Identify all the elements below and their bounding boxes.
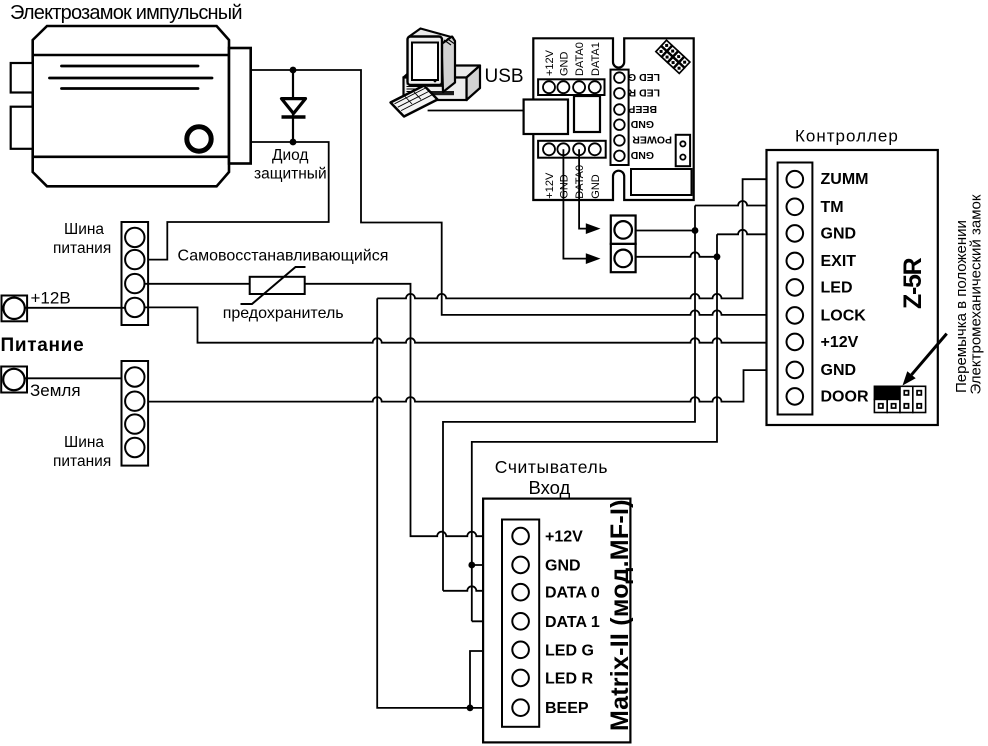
node diode top (290, 67, 297, 74)
terminal strip power bus bottom (122, 361, 149, 466)
wire TM net (TM contact 1, controller TM, reader DATA 0) (443, 201, 786, 591)
jumper arrow (912, 334, 947, 375)
adapter top terminals (543, 81, 601, 93)
svg-text:EXIT: EXIT (821, 253, 857, 270)
svg-text:Шина: Шина (64, 434, 104, 451)
svg-text:Вход: Вход (529, 477, 571, 498)
adapter jumper 2-hole (676, 135, 690, 166)
svg-text:DATA0: DATA0 (574, 165, 586, 199)
power bus top terminals (125, 228, 144, 317)
reader terminals +12V..BEEP (512, 528, 529, 716)
svg-text:LED R: LED R (545, 670, 593, 687)
svg-text:GND: GND (821, 362, 857, 379)
arrowhead to TM contact 2 (586, 253, 601, 264)
svg-text:GND: GND (558, 52, 570, 77)
svg-text:Электромеханический замок: Электромеханический замок (968, 194, 985, 394)
svg-text:POWER: POWER (632, 134, 672, 146)
svg-text:предохранитель: предохранитель (223, 305, 344, 322)
svg-text:DATA0: DATA0 (574, 42, 586, 76)
node reader GND (468, 562, 475, 569)
svg-text:защитный: защитный (254, 166, 327, 183)
wire fuse to reader +12V (305, 284, 513, 536)
diode D1 protective (282, 72, 306, 140)
svg-text:Считыватель: Считыватель (495, 457, 608, 477)
screen (412, 43, 438, 81)
adapter top terminal row (538, 79, 604, 95)
reader pin labels (545, 529, 600, 718)
svg-text:ZUMM: ZUMM (821, 171, 869, 188)
svg-text:+12V: +12V (544, 49, 556, 76)
wire adapter DATA0 to TM contact 1 (579, 149, 586, 228)
monitor vents (444, 39, 454, 46)
adapter pin header rotated (656, 40, 690, 73)
computer (391, 29, 481, 117)
adapter USB connector (524, 100, 568, 135)
svg-text:+12V: +12V (545, 529, 583, 546)
adapter right labels upside down (628, 71, 672, 161)
ground input terminal (1, 367, 27, 393)
adapter bottom-right rect (631, 169, 692, 195)
case drive slots (427, 84, 448, 87)
svg-text:GND: GND (630, 118, 654, 130)
reader box Matrix-II (483, 499, 630, 743)
monitor top (409, 29, 454, 47)
reader terminal strip (502, 520, 539, 727)
controller terminal strip (778, 163, 813, 415)
case grill (407, 82, 421, 92)
lock latch block (229, 48, 251, 164)
adapter bottom labels (544, 165, 602, 199)
svg-text:GND: GND (821, 225, 857, 242)
svg-text:+12V: +12V (821, 334, 859, 351)
controller jumper block (874, 386, 925, 412)
arrowhead to TM contact 1 (586, 223, 601, 234)
adapter top labels (544, 42, 602, 76)
node diode bottom (290, 139, 297, 146)
wire TM-GND net (TM contact 2, controller GND, reader GND, DATA 1) (472, 230, 787, 621)
svg-text:LED R: LED R (628, 87, 660, 99)
svg-text:DATA 1: DATA 1 (545, 614, 600, 631)
svg-text:Matrix-II (мод.MF-I): Matrix-II (мод.MF-I) (606, 499, 634, 731)
node TM2 (714, 253, 721, 260)
svg-text:GND: GND (545, 557, 581, 574)
svg-text:Диод: Диод (272, 147, 308, 164)
svg-text:TM: TM (821, 199, 844, 216)
TM contact 2 (611, 244, 636, 272)
svg-text:+12V: +12V (544, 172, 556, 199)
svg-text:+12В: +12В (31, 289, 71, 308)
adapter component (574, 96, 600, 132)
case top (404, 66, 481, 78)
keyboard (391, 86, 438, 117)
wire adapter GND to TM contact 2 (563, 149, 586, 258)
lock left tab 1 (11, 63, 33, 93)
svg-text:LED G: LED G (545, 642, 594, 659)
svg-text:Земля: Земля (30, 381, 81, 400)
wire +12V to strip (25, 307, 125, 309)
node TM1 (692, 227, 699, 234)
USB adapter board Z-2 (533, 38, 693, 200)
lock ring (187, 127, 211, 151)
svg-text:BEEP: BEEP (628, 103, 657, 115)
svg-text:GND: GND (630, 149, 654, 161)
wire ground to strip (25, 377, 126, 379)
controller pin labels (821, 171, 869, 405)
monitor right (442, 37, 456, 93)
TM contact 1 (611, 216, 636, 244)
svg-text:питания: питания (53, 453, 111, 470)
wire strip to fuse (144, 283, 249, 285)
adapter bottom terminal row (538, 141, 606, 158)
svg-text:BEEP: BEEP (545, 700, 589, 717)
wire ground bus to controller GND (144, 370, 786, 402)
wire lock- to power bus (144, 142, 328, 260)
svg-text:DOOR: DOOR (821, 388, 869, 405)
+12V input terminal (2, 296, 28, 322)
svg-text:LOCK: LOCK (821, 307, 867, 324)
svg-text:питания: питания (53, 240, 111, 257)
adapter bottom terminals (543, 143, 601, 155)
adapter right terminals (614, 72, 625, 161)
svg-text:USB: USB (485, 66, 524, 87)
svg-text:DATA 0: DATA 0 (545, 585, 600, 602)
svg-text:Электрозамок импульсный: Электрозамок импульсный (10, 2, 242, 24)
svg-text:Самовосстанавливающийся: Самовосстанавливающийся (178, 248, 389, 265)
controller box Z-5R (767, 150, 938, 425)
svg-text:Контроллер: Контроллер (795, 127, 899, 146)
case front (404, 78, 467, 101)
fuse F1 (250, 277, 305, 294)
wire ZUMM net (reader LED G + BEEP to controller ZUMM) (377, 179, 786, 708)
svg-text:GND: GND (558, 174, 570, 199)
svg-text:Шина: Шина (64, 221, 104, 238)
adapter right terminal column (611, 70, 629, 165)
power bus bottom terminals (125, 367, 144, 457)
svg-text:DATA1: DATA1 (590, 42, 602, 76)
lock body (33, 26, 229, 186)
svg-text:GND: GND (590, 174, 602, 199)
svg-text:LED: LED (821, 279, 853, 296)
terminal strip power bus top (122, 222, 149, 325)
svg-text:Z-5R: Z-5R (899, 257, 927, 309)
controller terminals ZUMM..DOOR (787, 171, 804, 405)
node LED G / BEEP (467, 705, 474, 712)
monitor front (408, 37, 443, 86)
lock stripes (50, 66, 213, 89)
svg-text:Питание: Питание (1, 335, 85, 356)
lock left tab 2 (11, 107, 33, 149)
svg-text:LED G: LED G (628, 71, 660, 83)
wire strip to controller +12V (144, 307, 786, 342)
case right (467, 66, 481, 101)
wire computer to USB adapter (428, 110, 524, 112)
wire lock+ to LOCK terminal (251, 70, 787, 315)
